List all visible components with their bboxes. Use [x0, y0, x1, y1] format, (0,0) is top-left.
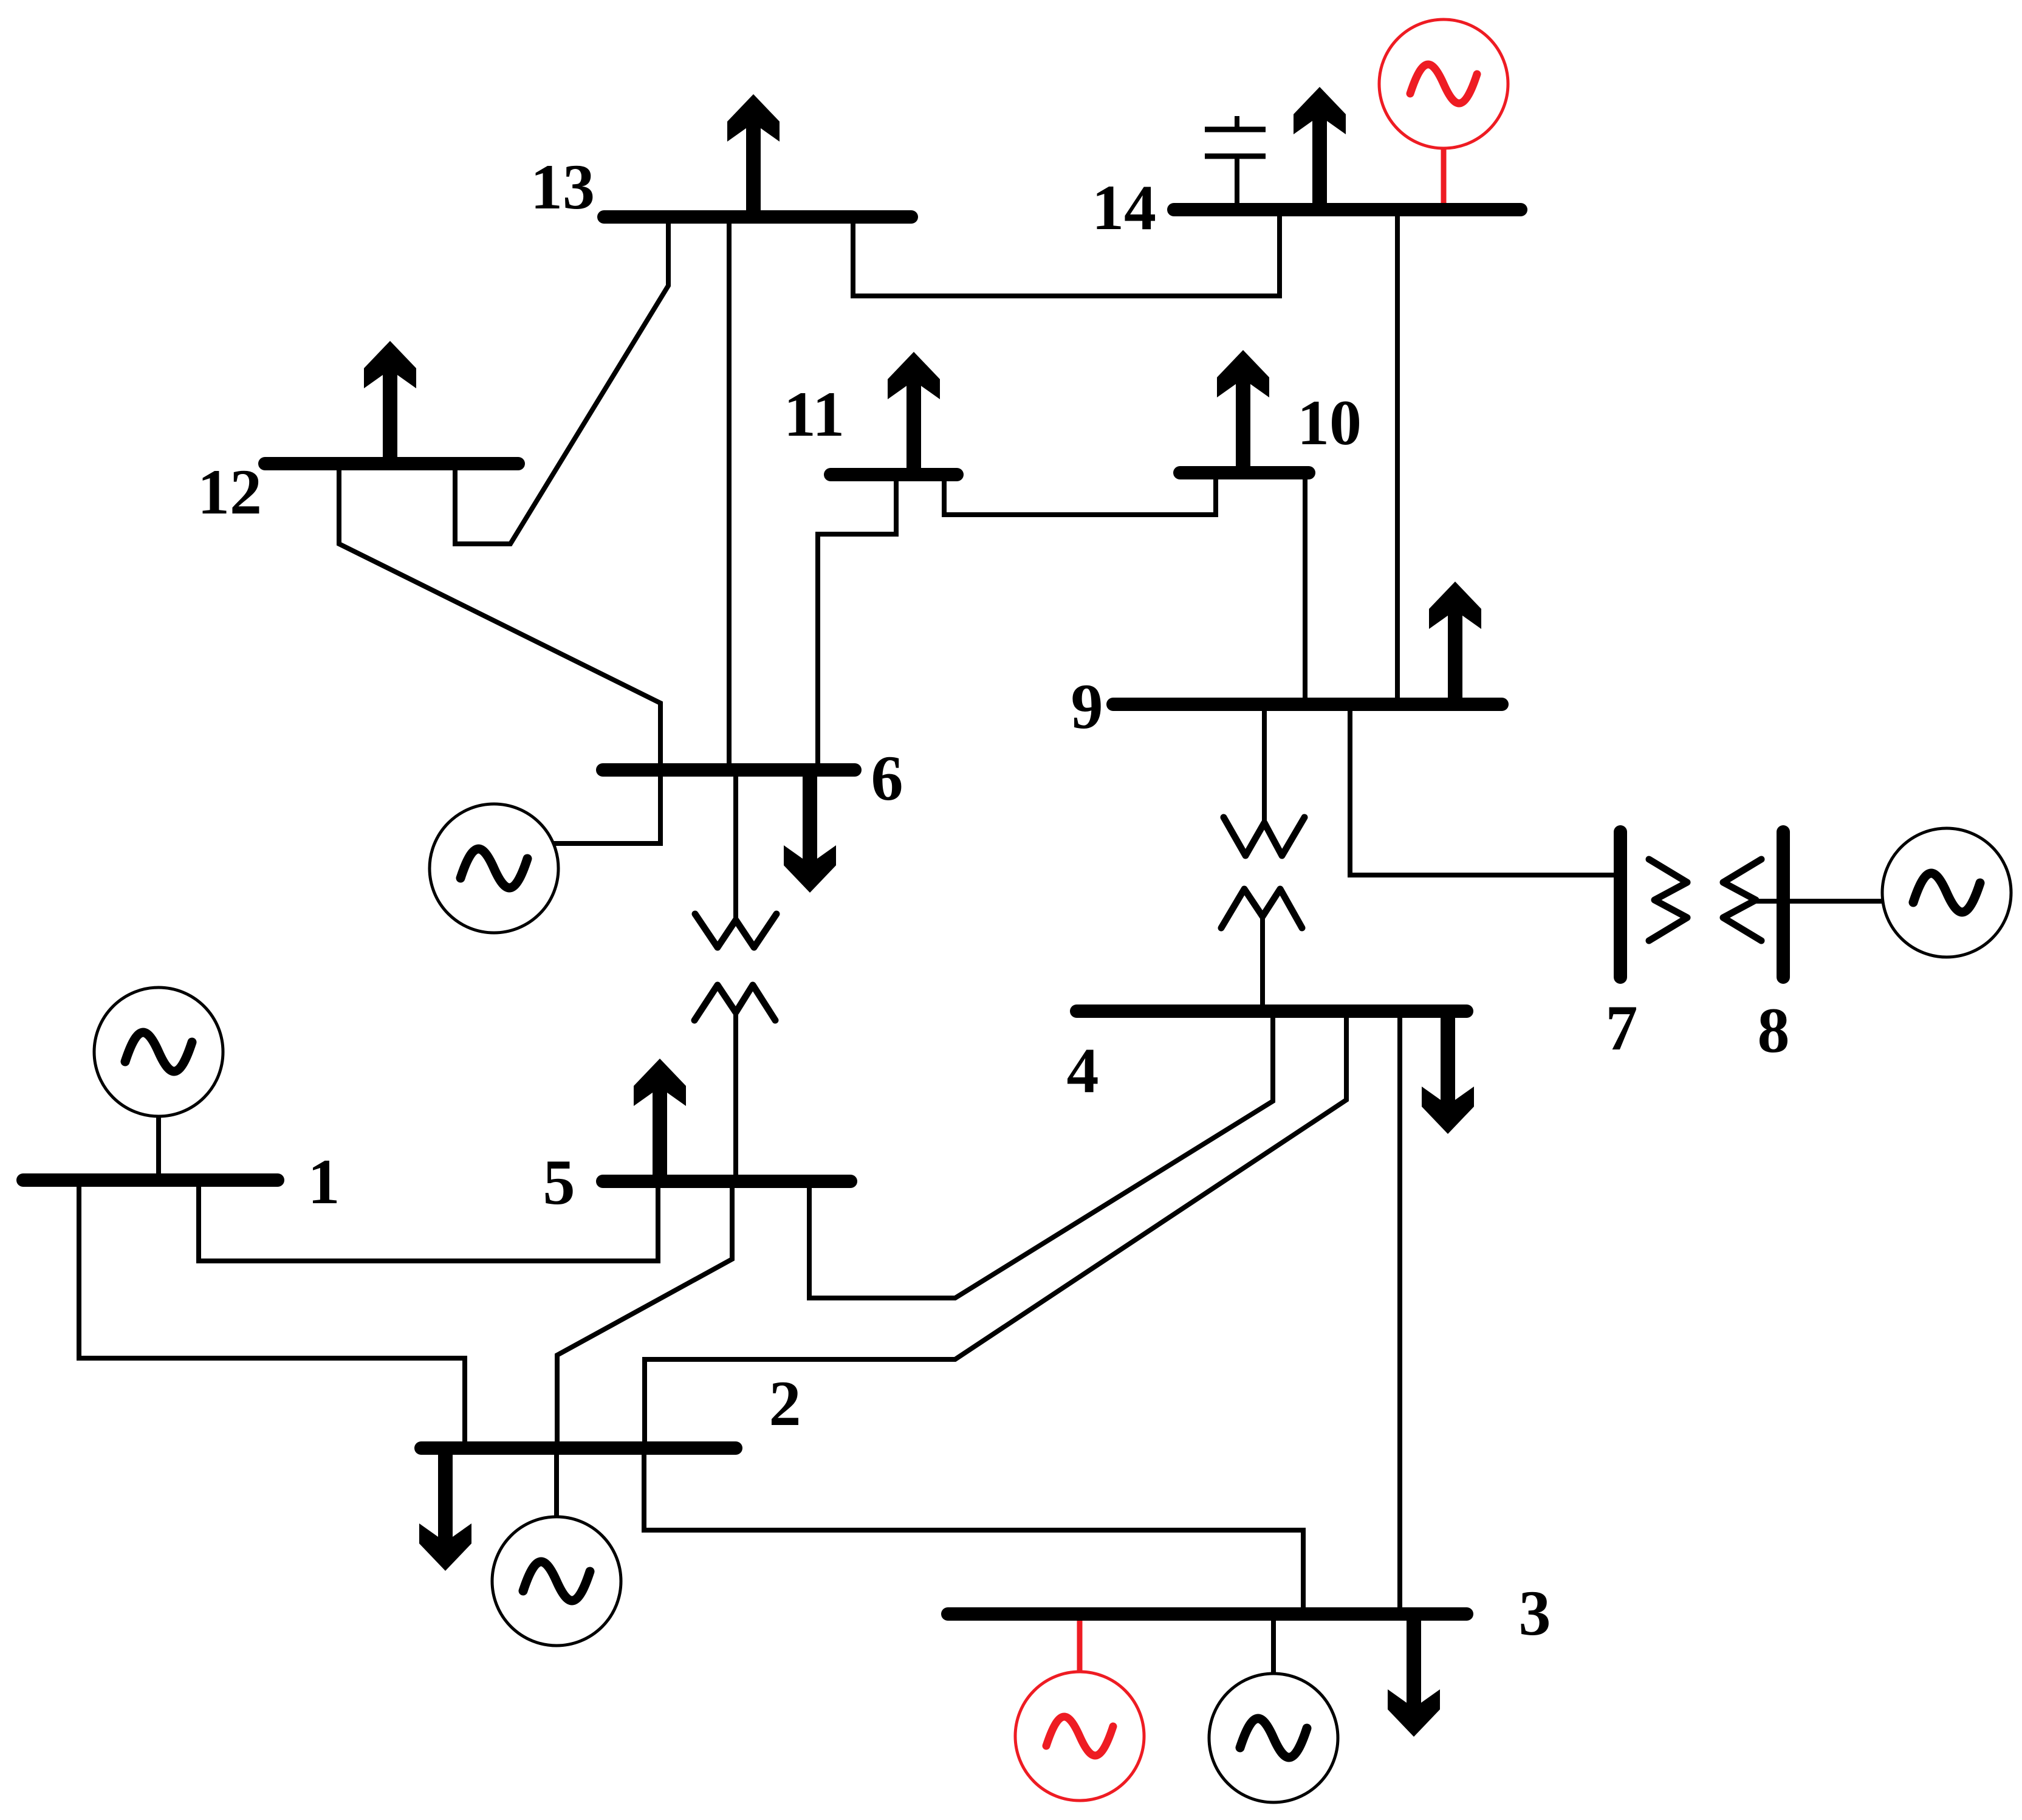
- wire: generator G8 to bus 8: [1756, 899, 1882, 904]
- bus 9 bar: [1113, 698, 1502, 711]
- wire: line 10-9: [1303, 473, 1307, 704]
- transformer 4-9 upper winding: [1224, 817, 1304, 856]
- svg-text:4: 4: [1067, 1035, 1099, 1106]
- bus 8 bar: [1777, 832, 1790, 977]
- generator G2 circle: [492, 1517, 621, 1646]
- bus 11 bar: [831, 468, 957, 481]
- load arrow (up) at bus 5: [634, 1059, 686, 1181]
- generator G6 sine symbol: [461, 849, 527, 888]
- load arrow (down) at bus 4: [1422, 1011, 1474, 1134]
- bus 3 bar: [948, 1607, 1467, 1621]
- svg-text:3: 3: [1519, 1578, 1551, 1649]
- bus 5 bar: [603, 1175, 851, 1188]
- transformer 4-9 lower lead: [1260, 916, 1265, 1011]
- bus 2 bar: [421, 1441, 736, 1455]
- generator G3b circle: [1209, 1674, 1338, 1802]
- transformer 5-6 upper winding: [695, 914, 776, 947]
- capacitor C14 top plate: [1205, 127, 1266, 132]
- wire: line 9-7: [1350, 704, 1614, 875]
- svg-text:13: 13: [530, 151, 595, 222]
- generator G14 (red) sine symbol: [1410, 64, 1477, 103]
- generator G8 circle: [1882, 828, 2011, 957]
- wire: generator G1 to bus 1: [156, 1116, 161, 1180]
- load arrow (down) at bus 2: [419, 1448, 471, 1571]
- svg-text:10: 10: [1297, 387, 1362, 458]
- svg-text:9: 9: [1071, 671, 1103, 742]
- wire: line 2-3: [644, 1448, 1303, 1614]
- generator G6 circle: [430, 804, 558, 933]
- wire: generator G6 to bus 6: [553, 770, 660, 843]
- wire: red generator G3a to bus 3: [1077, 1614, 1083, 1672]
- svg-text:1: 1: [308, 1146, 340, 1217]
- transformer 5-6 lower winding: [694, 985, 775, 1020]
- svg-text:7: 7: [1606, 992, 1638, 1063]
- transformer 7-8 left winding: [1649, 859, 1687, 941]
- load arrow (up) at bus 10: [1217, 350, 1269, 473]
- transformer 5-6 lower lead: [733, 1012, 738, 1181]
- generator G3a (red) sine symbol: [1046, 1717, 1113, 1756]
- wire: line 3-4: [1397, 1011, 1402, 1614]
- generator G8 sine symbol: [1913, 873, 1980, 912]
- capacitor C14 top stub: [1235, 116, 1239, 129]
- wire: line 13-6: [727, 217, 732, 770]
- generator G14 (red) circle: [1379, 19, 1508, 148]
- transformer 5-6 upper lead: [733, 770, 738, 920]
- bus 14 bar: [1174, 203, 1521, 216]
- bus 13 bar: [604, 210, 911, 224]
- load arrow (down) at bus 3: [1388, 1614, 1440, 1737]
- load arrow (up) at bus 13: [727, 94, 780, 217]
- bus 10 bar: [1180, 466, 1309, 479]
- generator G1 circle: [94, 987, 223, 1116]
- wire: line 2-4: [645, 1011, 1346, 1448]
- wire: line 1-2: [79, 1180, 465, 1448]
- load arrow (up) at bus 12: [364, 341, 416, 464]
- wire: line 11-6: [818, 475, 896, 770]
- svg-text:11: 11: [784, 379, 845, 450]
- transformer 4-9 lower winding: [1221, 889, 1302, 928]
- capacitor C14 bottom plate: [1205, 154, 1266, 159]
- bus 6 bar: [603, 763, 855, 777]
- svg-text:2: 2: [769, 1368, 801, 1439]
- wire: line 1-5: [199, 1180, 658, 1261]
- bus 7 bar: [1614, 832, 1627, 977]
- svg-text:5: 5: [543, 1147, 575, 1218]
- wire: line 5-4: [809, 1011, 1273, 1298]
- svg-text:12: 12: [197, 456, 262, 527]
- svg-text:6: 6: [871, 743, 903, 814]
- transformer 4-9 upper lead: [1262, 704, 1267, 823]
- bus 1 bar: [23, 1173, 278, 1187]
- wire: line 14-9: [1395, 210, 1400, 704]
- wire: generator G2 to bus 2: [554, 1448, 559, 1517]
- wire: line 12-13: [455, 217, 668, 544]
- generator G1 sine symbol: [125, 1032, 192, 1071]
- load arrow (up) at bus 11: [888, 352, 940, 475]
- load arrow (up) at bus 9: [1429, 582, 1481, 704]
- capacitor C14 lead to bus 14: [1235, 156, 1239, 210]
- wire: line 13-14: [853, 210, 1280, 296]
- bus 4 bar: [1077, 1004, 1467, 1018]
- load arrow (down) at bus 6: [784, 770, 836, 893]
- wire: red generator G14 to bus 14: [1441, 149, 1447, 210]
- wire: generator G3b to bus 3: [1271, 1614, 1276, 1674]
- svg-text:8: 8: [1758, 995, 1790, 1066]
- generator G2 sine symbol: [523, 1562, 590, 1601]
- generator G3b sine symbol: [1240, 1719, 1307, 1757]
- bus 12 bar: [265, 457, 518, 470]
- wire: line 12-6: [339, 464, 660, 770]
- wire: line 2-5: [557, 1181, 732, 1448]
- load arrow (up) at bus 14: [1294, 87, 1346, 210]
- wire: line 11-10: [944, 473, 1216, 515]
- transformer 7-8 right winding: [1723, 859, 1761, 941]
- generator G3a (red) circle: [1015, 1672, 1144, 1801]
- svg-text:14: 14: [1092, 172, 1156, 243]
